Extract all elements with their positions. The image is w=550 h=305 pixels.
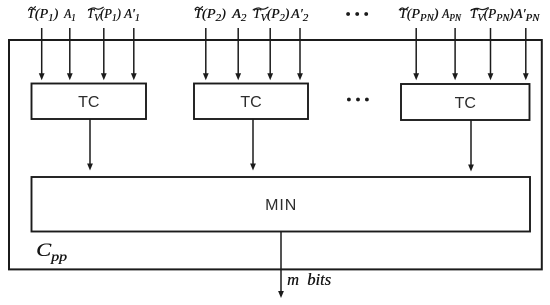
input wire A'2 to TC2 bbox=[297, 28, 303, 80]
label T~V(P_PN) bbox=[470, 7, 514, 21]
label T~(P_PN) bbox=[399, 7, 438, 21]
input wire T~V(PPN) to TC3 bbox=[488, 28, 494, 80]
input wire T~V(P1) to TC1 bbox=[101, 28, 107, 80]
label A_PN bbox=[442, 7, 461, 21]
label A1 bbox=[64, 7, 76, 21]
tilde accent over TV in T~V(P1) bbox=[89, 7, 104, 10]
text TC3 bbox=[401, 96, 530, 112]
block MIN U4 bbox=[32, 177, 531, 232]
input wire T~(PPN) to TC3 bbox=[413, 28, 419, 80]
label T~(P1) bbox=[27, 7, 58, 21]
input wire T~(P1) to TC1 bbox=[39, 28, 45, 80]
input wire A_PN to TC3 bbox=[452, 28, 458, 80]
input wire A'PN to TC3 bbox=[523, 28, 529, 80]
input wire T~(P2) to TC2 bbox=[203, 28, 209, 80]
enclosing block Cpp bbox=[9, 40, 542, 269]
input wire A2 to TC2 bbox=[235, 28, 241, 80]
label A'2 bbox=[291, 7, 308, 21]
label Cpp bbox=[36, 241, 67, 260]
input wire A'1 to TC1 bbox=[131, 28, 137, 80]
block TC U3 bbox=[401, 84, 530, 120]
block TC U1 bbox=[32, 84, 147, 120]
label A'_PN bbox=[514, 7, 539, 21]
ellipsis dots between label groups bbox=[346, 12, 368, 16]
text TC2 bbox=[194, 95, 308, 111]
label T~(P2) bbox=[194, 7, 226, 21]
tilde accent over TV in T~V(PPN) bbox=[471, 8, 488, 11]
tilde accent over T in T~(PPN) bbox=[399, 7, 408, 10]
label T~V(P2) bbox=[253, 7, 289, 21]
label A'1 bbox=[124, 7, 140, 21]
label T~V(P1) bbox=[87, 7, 121, 21]
tilde accent over T in T~(P1) bbox=[29, 7, 35, 10]
input wire A1 to TC1 bbox=[67, 28, 73, 80]
tilde accent over T in T~(P2) bbox=[195, 7, 203, 10]
output wire m bits from MIN bbox=[278, 232, 284, 299]
text MIN bbox=[32, 198, 531, 214]
wire TC2 output to MIN bbox=[250, 120, 256, 171]
block TC U2 bbox=[194, 84, 308, 120]
label A2 bbox=[232, 7, 246, 21]
wire TC3 output to MIN bbox=[468, 120, 474, 172]
ellipsis dots between TC blocks bbox=[347, 98, 369, 102]
text TC1 bbox=[32, 95, 147, 111]
label m bits bbox=[287, 272, 331, 289]
input wire T~V(P2) to TC2 bbox=[267, 28, 273, 80]
wire TC1 output to MIN bbox=[87, 120, 93, 171]
tilde accent over TV in T~V(P2) bbox=[253, 7, 268, 10]
